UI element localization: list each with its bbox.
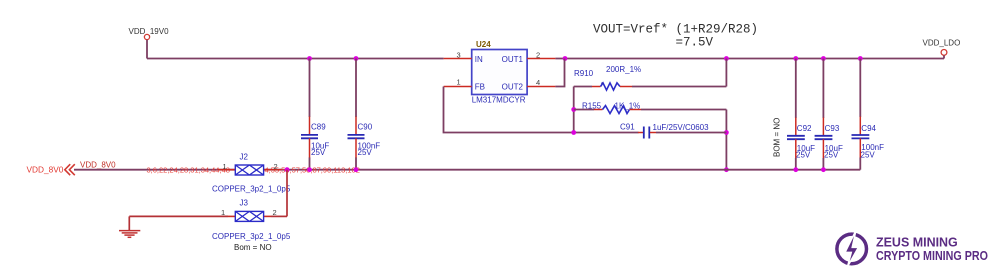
wire rail right bbox=[264, 169, 861, 171]
junction C90 bottom bbox=[354, 167, 359, 172]
svg-text:C93: C93 bbox=[825, 124, 840, 133]
junction rail R155 bbox=[724, 167, 729, 172]
svg-text:J2: J2 bbox=[240, 153, 249, 162]
junction C93 bottom bbox=[821, 167, 826, 172]
svg-text:COPPER_3p2_1_0p5: COPPER_3p2_1_0p5 bbox=[212, 232, 291, 241]
pin 3 IN stub bbox=[444, 51, 472, 60]
junction C94 top bbox=[858, 56, 863, 61]
svg-text:1K_1%: 1K_1% bbox=[615, 102, 641, 111]
net label VDD_LDO bbox=[923, 39, 961, 48]
capacitor C89 bbox=[301, 59, 329, 170]
power terminal VDD_LDO bbox=[941, 50, 947, 59]
svg-text:4: 4 bbox=[536, 78, 540, 87]
ground bbox=[119, 216, 140, 237]
text VOUT formula bbox=[593, 22, 758, 49]
capacitor C91 bbox=[620, 123, 726, 139]
capacitor C90 bbox=[348, 59, 381, 170]
svg-text:VOUT=Vref* (1+R29/R28): VOUT=Vref* (1+R29/R28) bbox=[593, 22, 758, 36]
junction C91 right bbox=[724, 130, 729, 135]
svg-text:C92: C92 bbox=[797, 124, 812, 133]
svg-text:2: 2 bbox=[274, 162, 278, 171]
node FB vertical bbox=[573, 87, 575, 133]
svg-text:R910: R910 bbox=[574, 69, 594, 78]
text pin list right bbox=[265, 165, 360, 174]
text Bom = NO bbox=[234, 243, 272, 252]
port VDD_8V0 bbox=[27, 164, 75, 175]
junction C92 top bbox=[793, 56, 798, 61]
junction C89 bottom bbox=[307, 167, 312, 172]
junction C90 top bbox=[354, 56, 359, 61]
svg-text:1: 1 bbox=[221, 208, 225, 217]
resistor R910 bbox=[574, 65, 727, 90]
svg-text:COPPER_3p2_1_0p5: COPPER_3p2_1_0p5 bbox=[212, 184, 291, 193]
svg-text:IN: IN bbox=[475, 55, 483, 64]
svg-text:2: 2 bbox=[273, 208, 277, 217]
net label VDD_8V0 bbox=[80, 161, 116, 170]
svg-text:VDD_LDO: VDD_LDO bbox=[923, 39, 961, 48]
note BOM = NO vertical bbox=[773, 118, 782, 157]
svg-text:3,6,22,24,28,31,34,44,48: 3,6,22,24,28,31,34,44,48 bbox=[147, 165, 230, 174]
svg-text:C89: C89 bbox=[311, 123, 326, 132]
junction C89 top bbox=[307, 56, 312, 61]
svg-text:1uF/25V/C0603: 1uF/25V/C0603 bbox=[653, 123, 710, 132]
text COPPER_3p2_1_0p5 J3 bbox=[212, 232, 291, 241]
junction FB bottom bbox=[571, 130, 576, 135]
svg-text:J3: J3 bbox=[240, 198, 249, 207]
svg-text:BOM = NO: BOM = NO bbox=[773, 118, 782, 157]
jumper J2 bbox=[218, 153, 282, 176]
wire OUT2 tie to OUT1 bbox=[555, 59, 564, 87]
wire FB loop bbox=[444, 87, 639, 133]
svg-text:25V: 25V bbox=[358, 148, 373, 157]
capacitor C92 bbox=[787, 59, 815, 170]
svg-text:C94: C94 bbox=[861, 124, 876, 133]
op-amp U24 LM317MDCYR regulator bbox=[472, 40, 527, 105]
svg-text:CRYPTO MINING PRO: CRYPTO MINING PRO bbox=[876, 248, 988, 263]
svg-text:C91: C91 bbox=[620, 123, 635, 132]
pin 1 FB stub bbox=[444, 78, 472, 87]
wire top bus U24 OUT to VDD_LDO bbox=[555, 58, 944, 60]
svg-text:1: 1 bbox=[223, 162, 227, 171]
jumper J3 bbox=[129, 198, 287, 221]
junction J3 riser bbox=[285, 167, 290, 172]
svg-text:C90: C90 bbox=[358, 123, 373, 132]
svg-text:3: 3 bbox=[457, 51, 461, 60]
svg-text:VDD_8V0: VDD_8V0 bbox=[80, 161, 116, 170]
svg-text:U24: U24 bbox=[476, 40, 491, 49]
svg-text:200R_1%: 200R_1% bbox=[606, 65, 641, 74]
text pin list left bbox=[147, 165, 230, 174]
junction C93 top bbox=[821, 56, 826, 61]
power terminal VDD_19V0 bbox=[144, 34, 149, 58]
wire R155 right down bbox=[725, 110, 727, 170]
svg-text:25V: 25V bbox=[861, 151, 876, 160]
svg-text:Bom = NO: Bom = NO bbox=[234, 243, 272, 252]
svg-text:R155: R155 bbox=[582, 102, 602, 111]
junction R910 top bbox=[724, 56, 729, 61]
svg-text:OUT2: OUT2 bbox=[502, 83, 524, 92]
wire R910 right to top bus bbox=[725, 59, 727, 87]
text COPPER_3p2_1_0p5 J2 bbox=[212, 184, 291, 193]
svg-text:VDD_8V0: VDD_8V0 bbox=[27, 165, 64, 175]
wire J3 to rail bbox=[286, 170, 288, 217]
junction output tie bbox=[563, 56, 568, 61]
net label VDD_19V0 bbox=[129, 27, 170, 36]
svg-text:25V: 25V bbox=[824, 150, 839, 159]
svg-text:1: 1 bbox=[457, 78, 461, 87]
junction R155 left bbox=[571, 107, 576, 112]
svg-text:25V: 25V bbox=[311, 148, 326, 157]
logo Zeus Mining bbox=[837, 231, 988, 267]
svg-text:LM317MDCYR: LM317MDCYR bbox=[472, 96, 526, 105]
svg-text:OUT1: OUT1 bbox=[502, 55, 524, 64]
wire rail left bbox=[74, 169, 235, 171]
svg-text:FB: FB bbox=[475, 83, 485, 92]
pin 2 OUT1 stub bbox=[527, 51, 555, 60]
pin 4 OUT2 stub bbox=[527, 78, 555, 87]
capacitor C93 bbox=[815, 59, 843, 170]
junction C92 bottom bbox=[793, 167, 798, 172]
wire top bus VDD_19V0 to U24 IN bbox=[147, 58, 444, 60]
svg-text:=7.5V: =7.5V bbox=[676, 36, 714, 50]
capacitor C94 bbox=[852, 59, 885, 170]
resistor R155 bbox=[574, 102, 727, 114]
svg-text:2: 2 bbox=[536, 51, 540, 60]
svg-text:25V: 25V bbox=[796, 150, 811, 159]
